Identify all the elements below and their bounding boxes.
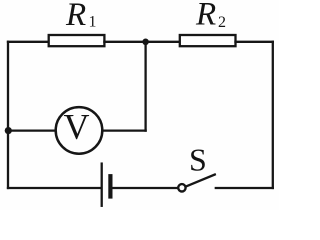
- wire R2 to top-right corner: [236, 41, 273, 43]
- svg-text:R: R: [65, 0, 86, 33]
- wire top-left (node A to R1): [8, 41, 49, 43]
- svg-text:1: 1: [89, 14, 97, 31]
- wire right rail: [272, 42, 274, 188]
- svg-text:S: S: [189, 142, 207, 178]
- wire voltmeter to riser: [102, 129, 145, 131]
- wire riser to junction: [144, 42, 146, 131]
- wire R1 to R2: [104, 41, 180, 43]
- svg-text:V: V: [64, 107, 90, 147]
- voltmeter V (meter): [56, 107, 103, 154]
- svg-text:R: R: [195, 0, 216, 33]
- wire left rail: [7, 42, 9, 188]
- node junction dot (R1-R2 midpoint): [142, 39, 149, 46]
- wire node to voltmeter: [8, 129, 56, 131]
- resistor R2: [180, 35, 236, 46]
- wire bottom-right (right rail to switch): [216, 187, 273, 189]
- svg-text:2: 2: [218, 14, 226, 31]
- battery (cell): [102, 164, 111, 206]
- node dot on left rail (voltmeter tap): [5, 127, 12, 134]
- resistor R1: [49, 35, 105, 46]
- wire battery to bottom-left corner: [8, 187, 101, 189]
- wire switch to battery: [113, 187, 178, 189]
- switch S: [178, 175, 215, 192]
